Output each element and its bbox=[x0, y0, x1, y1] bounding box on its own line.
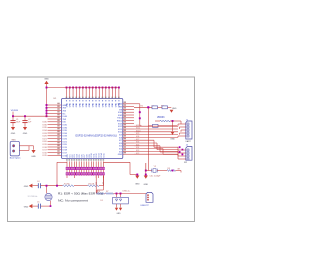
svg-text:GND: GND bbox=[99, 102, 101, 107]
svg-text:GND: GND bbox=[31, 156, 36, 158]
svg-text:GND: GND bbox=[102, 102, 104, 107]
capacitor C1 10uF decoupling with GND bbox=[10, 104, 192, 215]
wire GND rail left vertical with junctions to pins 1-4 bbox=[46, 87, 48, 118]
resistor R2 (32K series) bbox=[88, 176, 104, 187]
wire vertical to XTAL row bbox=[147, 126, 149, 171]
svg-text:GND: GND bbox=[83, 102, 85, 107]
svg-text:GND: GND bbox=[106, 102, 108, 107]
connector J2 (1x4 header) bbox=[182, 145, 192, 165]
power net VDD33 with rail to U1 3V3 pin bbox=[11, 110, 48, 117]
schematic sheet border bbox=[8, 77, 195, 222]
wire net down to filter row bbox=[147, 107, 149, 126]
svg-text:GND: GND bbox=[24, 207, 29, 209]
bus staircase wires to connector J2 bbox=[154, 140, 183, 159]
svg-text:GND: GND bbox=[172, 108, 177, 110]
svg-text:GND: GND bbox=[70, 102, 72, 107]
U1 right pins 20-38 with numbers bbox=[117, 102, 134, 157]
U1 top pins 36-53 (GND pads) with junctions bbox=[66, 87, 121, 108]
svg-text:GND: GND bbox=[24, 186, 29, 188]
svg-text:VDD33: VDD33 bbox=[157, 117, 165, 119]
svg-text:GND: GND bbox=[86, 102, 88, 107]
resistor R5 from VDD33 to J1 with GND bbox=[155, 117, 181, 140]
wire U1 pin GND bus right vertical bbox=[134, 104, 142, 126]
wires U1 lower right with net labels bbox=[134, 139, 178, 155]
svg-text:GND: GND bbox=[109, 102, 111, 107]
connector J1 (1x5 header) bbox=[182, 119, 192, 143]
wires U1 to header J1 with net labels bbox=[134, 125, 178, 138]
svg-text:VDD33: VDD33 bbox=[11, 110, 19, 112]
op IC U1 ESP32-S2-MINI-1 body bbox=[62, 99, 123, 159]
crystal Y1 32.768KHz bbox=[28, 185, 53, 207]
svg-text:ESP32-S2-MINI-1(ESP32-S2-MINI-: ESP32-S2-MINI-1(ESP32-S2-MINI-1U) bbox=[76, 135, 118, 137]
U1 bottom pins 54-65 bbox=[66, 153, 105, 167]
svg-text:IO15: IO15 bbox=[103, 153, 105, 157]
crystal Y2 with series resistor R3 bbox=[145, 163, 181, 178]
wires SW1 to GND bbox=[19, 104, 192, 215]
svg-text:GND: GND bbox=[63, 105, 68, 107]
svg-text:SPI: SPI bbox=[184, 162, 188, 164]
svg-text:GND: GND bbox=[118, 104, 123, 106]
wire GND rail top horizontal bbox=[47, 87, 119, 89]
wires USB DM DP from module bbox=[94, 176, 103, 194]
svg-text:GND: GND bbox=[93, 102, 95, 107]
pushbutton SW1 Boot Option bbox=[10, 104, 192, 215]
svg-text:GND: GND bbox=[73, 102, 75, 107]
svg-text:DM: DM bbox=[94, 182, 96, 185]
svg-text:GND: GND bbox=[170, 139, 175, 141]
capacitor C2 1uF decoupling with GND bbox=[10, 104, 192, 215]
svg-text:USB1 TP: USB1 TP bbox=[141, 205, 150, 207]
capacitor C4 to GND (32K XTAL) bbox=[24, 181, 63, 188]
wire jogs into J1 pins bbox=[178, 124, 182, 137]
svg-text:32.768KHz: 32.768KHz bbox=[28, 196, 38, 198]
resistor R1 (32K series) bbox=[56, 184, 87, 187]
ferrite bead L1 and resistor R4 chain to GND bbox=[134, 105, 177, 112]
svg-text:GND: GND bbox=[44, 79, 49, 81]
svg-text:UART: UART bbox=[186, 140, 192, 143]
svg-text:GND: GND bbox=[112, 102, 114, 107]
test pad header block under U1 (2 rows) bbox=[66, 167, 104, 178]
svg-text:USB_D+: USB_D+ bbox=[123, 191, 132, 193]
svg-text:C6 | 2x16pF: C6 | 2x16pF bbox=[150, 176, 162, 178]
svg-text:GND: GND bbox=[11, 133, 16, 135]
wire to second GND arrow bbox=[144, 163, 149, 186]
power port GND (top, above U1) bbox=[44, 79, 49, 88]
svg-text:TXD0: TXD0 bbox=[117, 118, 123, 120]
U1 left pins 1-19 with numbers and net labels bbox=[42, 103, 67, 158]
svg-text:GND: GND bbox=[89, 102, 91, 107]
svg-text:Boot Option: Boot Option bbox=[10, 157, 21, 160]
USB connector USB1 bbox=[141, 192, 154, 206]
svg-text:GND: GND bbox=[23, 133, 28, 135]
svg-text:RXD0: RXD0 bbox=[117, 121, 123, 123]
svg-text:C5: C5 bbox=[37, 201, 39, 203]
svg-text:GND: GND bbox=[117, 213, 122, 215]
svg-text:R2: R2 bbox=[141, 105, 143, 107]
capacitor C5 to GND (32K XTAL) bbox=[24, 201, 51, 208]
wire bottom pin to 32K circuit bbox=[57, 162, 67, 185]
svg-text:GND: GND bbox=[135, 183, 140, 185]
resistors R6 R7 USB series bbox=[96, 191, 146, 195]
ESD protection diode D1 with GND bbox=[101, 194, 129, 216]
svg-text:GND: GND bbox=[96, 102, 98, 107]
svg-text:GND: GND bbox=[79, 102, 81, 107]
svg-text:C4: C4 bbox=[37, 181, 39, 183]
component on net row to J1 bbox=[148, 124, 177, 127]
svg-text:GND: GND bbox=[76, 102, 78, 107]
wire bottom GND pin to GND bbox=[104, 162, 141, 185]
svg-text:GND: GND bbox=[144, 184, 149, 186]
svg-text:NC: No component: NC: No component bbox=[58, 200, 89, 203]
svg-text:GND: GND bbox=[118, 154, 123, 156]
